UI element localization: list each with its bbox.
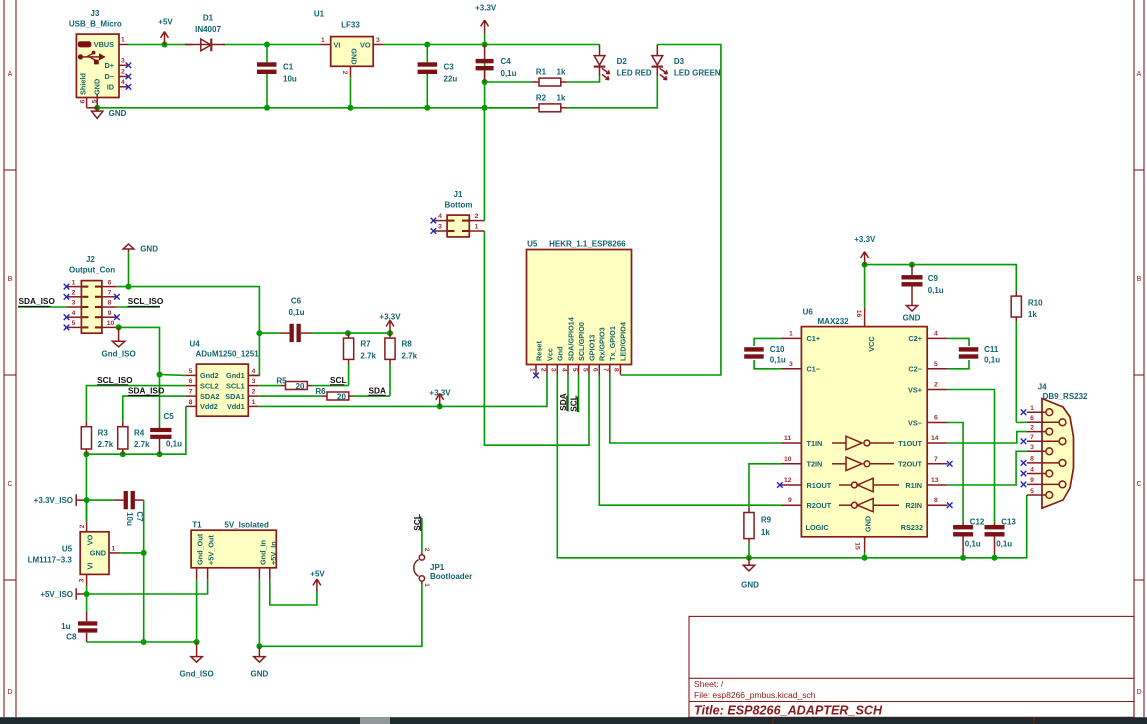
resistor R3 2.7k — [81, 422, 113, 455]
diode D1 IN4007 — [185, 14, 225, 52]
svg-text:3: 3 — [252, 378, 256, 385]
svg-text:+5V: +5V — [310, 570, 325, 579]
svg-text:C9: C9 — [928, 274, 939, 283]
svg-text:R2IN: R2IN — [905, 501, 922, 510]
wire ESP Rx to R2OUT — [599, 375, 781, 506]
junction R4 rail — [120, 451, 126, 457]
svg-text:C: C — [7, 481, 12, 488]
svg-text:Sheet: /: Sheet: / — [694, 679, 724, 689]
transformer T1 5V_Isolated — [191, 521, 278, 580]
power +5V at VBUS — [158, 18, 173, 45]
junction C6 left — [256, 330, 262, 336]
capacitor C7 10u — [87, 491, 144, 553]
svg-text:Gnd2: Gnd2 — [200, 371, 219, 380]
wire SCL stub — [578, 375, 580, 413]
svg-text:VO: VO — [360, 41, 371, 50]
junction +5V on VBUS — [162, 42, 168, 48]
regulator U1 LF33 — [314, 10, 384, 108]
svg-text:8: 8 — [1030, 456, 1034, 463]
bottom bar scroll thumb — [360, 717, 390, 724]
svg-text:T1: T1 — [192, 521, 202, 530]
svg-text:2: 2 — [934, 382, 938, 389]
svg-text:3: 3 — [438, 224, 442, 231]
svg-text:7: 7 — [934, 456, 938, 463]
label SCL_ISO right — [128, 296, 164, 306]
svg-text:T1IN: T1IN — [807, 439, 823, 448]
label SCL_ISO at U4 — [97, 375, 133, 385]
svg-text:2.7k: 2.7k — [402, 351, 418, 360]
wire VS- to C12 — [948, 423, 963, 523]
junction J2 pin10 — [116, 324, 122, 330]
svg-text:J3: J3 — [91, 9, 100, 18]
svg-text:5V_Isolated: 5V_Isolated — [224, 521, 269, 530]
svg-text:6: 6 — [934, 415, 938, 422]
power +3.3V above R8 — [379, 312, 401, 333]
svg-text:20: 20 — [296, 382, 305, 391]
svg-text:Shield: Shield — [79, 73, 88, 95]
svg-text:R8: R8 — [402, 340, 413, 349]
svg-text:5: 5 — [189, 368, 193, 375]
svg-text:Vcc: Vcc — [545, 348, 554, 361]
svg-text:D−: D− — [104, 72, 114, 81]
svg-text:C10: C10 — [770, 345, 785, 354]
jumper JP1 Bootloader — [414, 518, 472, 587]
svg-text:Tx_GPIO1: Tx_GPIO1 — [608, 326, 617, 361]
junction Gnd2 node — [157, 372, 163, 378]
svg-text:D+: D+ — [104, 61, 114, 70]
wire T2IN to R9 — [749, 464, 781, 508]
svg-text:2.7k: 2.7k — [98, 440, 114, 449]
svg-text:R4: R4 — [134, 429, 145, 438]
svg-text:ADuM1250_1251: ADuM1250_1251 — [196, 350, 260, 359]
svg-text:2.7k: 2.7k — [360, 351, 376, 360]
wire GND rail to JP1 — [259, 585, 422, 647]
svg-text:7: 7 — [1030, 434, 1034, 441]
junction Gnd_In — [256, 643, 262, 649]
svg-text:C12: C12 — [970, 518, 985, 527]
wire R2 right to D3 bottom — [567, 76, 657, 108]
svg-text:C6: C6 — [291, 297, 302, 306]
svg-text:D3: D3 — [674, 57, 685, 66]
svg-text:5: 5 — [581, 368, 588, 372]
svg-text:R10: R10 — [1028, 298, 1043, 307]
wire GND rail right — [865, 495, 1027, 558]
capacitor C9 0,1u — [902, 265, 944, 300]
svg-text:6: 6 — [189, 378, 193, 385]
svg-text:R1OUT: R1OUT — [807, 481, 832, 490]
svg-text:Bootloader: Bootloader — [430, 572, 472, 581]
svg-text:13: 13 — [931, 477, 939, 484]
svg-text:T2IN: T2IN — [807, 460, 823, 469]
svg-text:1k: 1k — [557, 94, 566, 103]
wire J2 pin6 to GND and C6 — [117, 287, 260, 334]
wire Gnd2 node down to C5 — [159, 375, 161, 427]
svg-text:1: 1 — [112, 546, 116, 553]
LED D2 RED — [594, 45, 652, 80]
svg-text:5: 5 — [91, 99, 98, 103]
resistor R4 2.7k — [118, 422, 150, 455]
sheet border right band — [1134, 0, 1144, 717]
svg-text:4: 4 — [72, 310, 76, 317]
resistor R8 2.7k — [385, 333, 418, 396]
svg-text:VS+: VS+ — [908, 385, 922, 394]
svg-text:0,1u: 0,1u — [984, 356, 1000, 365]
wire T1OUT to J4 pin2 — [948, 432, 1027, 443]
wire U4 Vdd1 to +3.3V and U5 Vcc — [259, 375, 547, 407]
IC U4 ADuM1250_1251 — [186, 339, 259, 416]
sheet border left band — [4, 0, 16, 717]
svg-text:VO: VO — [86, 534, 95, 545]
svg-text:3: 3 — [1030, 444, 1034, 451]
wire R10 to J4 pin6 — [1016, 421, 1027, 423]
junction U5 GND C7 — [141, 550, 147, 556]
svg-text:0,1u: 0,1u — [501, 69, 517, 78]
svg-text:1k: 1k — [557, 68, 566, 77]
svg-text:SDA_ISO: SDA_ISO — [19, 296, 56, 306]
svg-text:R3: R3 — [98, 429, 109, 438]
svg-text:SCL1: SCL1 — [226, 381, 245, 390]
power GND above J2 — [123, 244, 158, 287]
buffer R2 inside MAX232 — [839, 498, 899, 511]
svg-text:3: 3 — [72, 300, 76, 307]
wire R5 to R7 SCL — [312, 385, 348, 387]
svg-text:R1: R1 — [536, 68, 547, 77]
svg-text:6: 6 — [108, 279, 112, 286]
svg-text:GND: GND — [251, 670, 269, 679]
svg-text:+3.3V: +3.3V — [379, 312, 401, 321]
LED D3 GREEN — [652, 45, 721, 80]
svg-text:SCL_ISO: SCL_ISO — [97, 375, 133, 385]
svg-text:2: 2 — [79, 524, 86, 528]
svg-text:10: 10 — [784, 456, 792, 463]
svg-text:JP1: JP1 — [430, 563, 445, 572]
svg-text:3: 3 — [789, 361, 793, 368]
svg-text:GND: GND — [140, 245, 158, 254]
junction J2 pin6 GND — [126, 284, 132, 290]
svg-text:1: 1 — [475, 224, 479, 231]
svg-text:4: 4 — [438, 213, 442, 220]
power +3.3V top — [475, 4, 497, 45]
svg-text:C7: C7 — [135, 511, 144, 522]
wire 5V_Out to +5V_ISO — [87, 580, 208, 594]
svg-text:22u: 22u — [444, 75, 458, 84]
svg-text:Title: ESP8266_ADAPTER_SCH: Title: ESP8266_ADAPTER_SCH — [694, 704, 883, 718]
svg-text:GND: GND — [350, 48, 359, 64]
svg-text:J2: J2 — [86, 255, 95, 264]
junction C3 top — [424, 42, 430, 48]
power flag +3.3V_ISO — [34, 494, 87, 506]
svg-text:2: 2 — [539, 368, 546, 372]
resistor R9 1k — [744, 507, 772, 558]
svg-text:C1−: C1− — [807, 365, 821, 374]
label SDA mid — [368, 385, 386, 395]
svg-text:10: 10 — [107, 320, 115, 327]
resistor R2 1k — [485, 94, 568, 112]
svg-text:DB9_RS232: DB9_RS232 — [1043, 392, 1088, 401]
junction R8 +3.3V — [387, 330, 393, 336]
power Gnd_ISO bottom — [179, 642, 213, 679]
svg-text:J4: J4 — [1038, 383, 1047, 392]
svg-text:4: 4 — [121, 79, 125, 86]
svg-text:GND: GND — [864, 516, 873, 532]
svg-text:T1OUT: T1OUT — [898, 439, 922, 448]
wire rail down to +3.3V_ISO — [85, 454, 87, 522]
svg-text:4: 4 — [252, 368, 256, 375]
junction U1 GND — [348, 105, 354, 111]
svg-text:SCL: SCL — [412, 514, 422, 531]
svg-text:Gnd1: Gnd1 — [226, 371, 245, 380]
svg-text:SCL: SCL — [569, 395, 579, 412]
svg-text:VS−: VS− — [908, 418, 922, 427]
junction C6 right R7 — [345, 330, 351, 336]
wire GND rail top — [97, 107, 534, 109]
svg-text:C13: C13 — [1001, 518, 1016, 527]
svg-text:12: 12 — [784, 477, 792, 484]
connector J1 Bottom — [431, 190, 485, 237]
wire ESP Gnd to GND rail — [557, 375, 864, 558]
power flag +5V_ISO — [40, 588, 86, 600]
wire VS+ to C13 — [948, 390, 995, 523]
label SCL vertical — [569, 395, 579, 412]
bottom bar title row stubs — [773, 717, 1034, 724]
capacitor C1 10u — [257, 45, 297, 108]
svg-text:R1IN: R1IN — [905, 481, 922, 490]
svg-text:LOGIC: LOGIC — [806, 523, 830, 532]
svg-text:R9: R9 — [761, 515, 772, 524]
svg-text:1: 1 — [321, 37, 325, 44]
power +3.3V mid — [429, 389, 451, 407]
connector J3 USB_B_Micro — [69, 9, 131, 108]
capacitor C13 0,1u — [985, 518, 1017, 558]
svg-text:+5V_Out: +5V_Out — [207, 535, 216, 565]
svg-text:1: 1 — [789, 330, 793, 337]
svg-text:7: 7 — [602, 368, 609, 372]
svg-text:6: 6 — [592, 368, 599, 372]
title block — [689, 616, 1134, 717]
svg-text:VCC: VCC — [867, 336, 876, 352]
svg-text:1u: 1u — [61, 622, 70, 631]
svg-text:3: 3 — [121, 58, 125, 65]
wire VBUS to D1 anode — [128, 44, 191, 46]
svg-text:Bottom: Bottom — [445, 201, 473, 210]
svg-text:1: 1 — [72, 279, 76, 286]
svg-text:0,1u: 0,1u — [996, 539, 1012, 548]
svg-text:C4: C4 — [501, 57, 512, 66]
svg-text:SDA_ISO: SDA_ISO — [128, 385, 165, 395]
svg-text:10u: 10u — [283, 75, 297, 84]
svg-text:SCL/GPIO0: SCL/GPIO0 — [577, 322, 586, 361]
svg-text:1: 1 — [1030, 405, 1034, 412]
svg-text:C2−: C2− — [908, 365, 922, 374]
svg-text:A: A — [1137, 71, 1142, 78]
svg-text:VI: VI — [334, 41, 341, 50]
svg-text:U5: U5 — [527, 239, 538, 248]
wire SDA stub — [567, 375, 569, 412]
svg-text:MAX232: MAX232 — [818, 317, 850, 326]
svg-text:SDA1: SDA1 — [225, 392, 244, 401]
svg-text:+3.3V: +3.3V — [429, 389, 451, 398]
svg-text:T2OUT: T2OUT — [898, 460, 922, 469]
junction C5 rail — [157, 451, 163, 457]
power GND at USB — [92, 108, 127, 119]
svg-text:2: 2 — [1030, 424, 1034, 431]
svg-text:Gnd_ISO: Gnd_ISO — [101, 350, 135, 359]
svg-text:9: 9 — [788, 497, 792, 504]
junction R9 GND rail — [746, 555, 752, 561]
capacitor C8 1u — [61, 594, 97, 642]
buffer T2 inside MAX232 — [832, 457, 894, 471]
svg-text:LED GREEN: LED GREEN — [674, 68, 721, 77]
wire SDA_ISO row U4 pin7 to R4 — [123, 396, 186, 421]
svg-text:Rx/GPIO3: Rx/GPIO3 — [598, 327, 607, 361]
svg-text:14: 14 — [931, 435, 939, 442]
label SDA_ISO at U4 — [128, 385, 165, 395]
svg-text:Gnd: Gnd — [556, 346, 565, 361]
wire R1IN to J4 pin3 — [948, 451, 1027, 485]
capacitor C5 0,1u — [150, 412, 182, 454]
svg-text:C8: C8 — [66, 632, 77, 641]
wire iso ground rail — [87, 641, 197, 643]
junction MAX232 GND rail — [862, 555, 868, 561]
svg-text:GPIO13: GPIO13 — [587, 335, 596, 361]
svg-text:Reset: Reset — [534, 341, 543, 361]
svg-text:SCL2: SCL2 — [200, 381, 219, 390]
junction C9 — [909, 262, 915, 268]
svg-text:Gnd_In: Gnd_In — [258, 540, 267, 565]
svg-text:6: 6 — [79, 99, 86, 103]
svg-text:VBUS: VBUS — [94, 40, 114, 49]
capacitor C10 0,1u — [744, 338, 786, 368]
wire U1 VO to +3.3V rail and D2 top — [384, 44, 600, 46]
svg-text:LED/GPIO4: LED/GPIO4 — [619, 321, 628, 361]
power Gnd_ISO below J2 — [101, 327, 135, 358]
svg-text:B: B — [1137, 276, 1142, 283]
svg-text:U6: U6 — [803, 308, 814, 317]
svg-text:SDA2: SDA2 — [200, 392, 219, 401]
svg-text:SDA: SDA — [369, 385, 387, 395]
svg-text:5: 5 — [1030, 488, 1034, 495]
svg-text:8: 8 — [613, 368, 620, 372]
power GND below T1 — [251, 646, 269, 678]
resistor R6 20 — [259, 387, 354, 402]
svg-text:2: 2 — [252, 389, 256, 396]
wire C4 bottom junction riser — [484, 58, 486, 108]
svg-text:Vdd2: Vdd2 — [200, 402, 218, 411]
wire GND rail down to J1 pin2 — [483, 108, 485, 221]
junction C1 top — [264, 42, 270, 48]
power GND below C9 — [903, 300, 921, 323]
junction C12 rail — [960, 555, 966, 561]
wire MAX232 GND pin to rail — [864, 553, 866, 558]
svg-text:USB_B_Micro: USB_B_Micro — [69, 20, 122, 29]
junction USB GND — [94, 105, 100, 111]
svg-text:U1: U1 — [314, 10, 325, 19]
wire D3 top to GPIO4 riser — [620, 45, 721, 376]
svg-text:C3: C3 — [444, 62, 455, 71]
power GND below R9 — [741, 558, 759, 590]
svg-text:GND: GND — [741, 581, 759, 590]
svg-text:SDA/GPIO14: SDA/GPIO14 — [566, 316, 575, 361]
svg-text:GND: GND — [90, 549, 106, 558]
svg-text:2: 2 — [72, 290, 76, 297]
svg-text:0,1u: 0,1u — [166, 439, 182, 448]
wire SCL_ISO row U4 pin6 to R3 — [86, 386, 185, 422]
wire U4 Gnd2 to J2 riser — [160, 374, 186, 377]
label SDA vertical — [558, 393, 568, 411]
junction +3.3V_ISO — [84, 497, 90, 503]
svg-text:+5V_ISO: +5V_ISO — [40, 590, 73, 599]
power +3.3V above MAX232 — [854, 235, 876, 265]
svg-text:3: 3 — [78, 578, 85, 582]
svg-text:2: 2 — [341, 71, 348, 75]
wire C6 left down to U4 Gnd1 — [248, 333, 259, 375]
junction C4 R1 node — [482, 79, 488, 85]
svg-text:LM1117−3.3: LM1117−3.3 — [28, 556, 73, 565]
svg-text:4: 4 — [934, 330, 938, 337]
svg-text:C5: C5 — [164, 412, 175, 421]
svg-text:D2: D2 — [617, 57, 628, 66]
junction rail Gnd_Out — [194, 639, 200, 645]
svg-text:+3.3V: +3.3V — [475, 4, 497, 13]
capacitor C3 22u — [418, 45, 458, 108]
svg-text:Vdd1: Vdd1 — [227, 402, 245, 411]
svg-text:LED RED: LED RED — [617, 68, 652, 77]
svg-text:2: 2 — [475, 213, 479, 220]
svg-text:File: esp8266_pmbus.kicad_sch: File: esp8266_pmbus.kicad_sch — [694, 690, 816, 700]
wire C7 gnd riser to rail — [143, 553, 145, 642]
svg-text:0,1u: 0,1u — [928, 286, 944, 295]
label SDA_ISO left — [18, 296, 55, 306]
junction C4 top — [482, 42, 488, 48]
wire C4 bottom to R1 left — [485, 81, 532, 83]
svg-text:1: 1 — [121, 37, 125, 44]
svg-text:SCL_ISO: SCL_ISO — [128, 296, 164, 306]
svg-text:GND: GND — [93, 79, 102, 95]
junction C13 rail — [992, 555, 998, 561]
svg-text:1k: 1k — [761, 528, 770, 537]
svg-text:9: 9 — [1030, 477, 1034, 484]
wire +3.3V rail above MAX232 — [865, 265, 1017, 308]
label SCL mid — [330, 375, 347, 385]
power +5V at T1 — [310, 570, 325, 593]
wire Gnd_In to GND rail — [258, 580, 260, 647]
svg-text:R7: R7 — [360, 340, 371, 349]
svg-text:8: 8 — [934, 497, 938, 504]
svg-text:B: B — [8, 276, 13, 283]
svg-text:Output_Con: Output_Con — [69, 265, 115, 274]
wire U4 Vdd2 down to pullup rail — [86, 406, 185, 454]
connector J4 DB9_RS232 — [1021, 383, 1088, 509]
svg-text:8: 8 — [108, 300, 112, 307]
svg-text:R5: R5 — [276, 376, 287, 385]
svg-text:R6: R6 — [315, 387, 326, 396]
svg-text:C: C — [1136, 481, 1141, 488]
svg-text:7: 7 — [108, 290, 112, 297]
wire D1 cathode to U1 VI — [222, 44, 320, 46]
svg-text:10u: 10u — [125, 512, 134, 526]
svg-text:C1: C1 — [283, 62, 294, 71]
svg-text:A: A — [8, 71, 13, 78]
IC U6 MAX232 — [777, 307, 952, 552]
svg-text:D: D — [1136, 689, 1141, 696]
svg-text:IN4007: IN4007 — [195, 25, 221, 34]
svg-text:D: D — [7, 689, 12, 696]
svg-text:9: 9 — [108, 310, 112, 317]
svg-text:0,1u: 0,1u — [288, 308, 304, 317]
wire SCL_ISO stub at J2 pin8 — [117, 306, 160, 308]
svg-text:15: 15 — [853, 542, 860, 550]
svg-text:6: 6 — [1030, 415, 1034, 422]
